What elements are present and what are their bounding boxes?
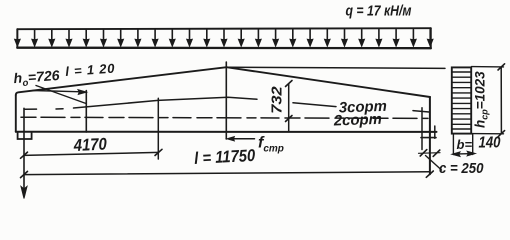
grade boundary line (right end segment) <box>413 111 429 112</box>
distributed load strip bottom line <box>17 47 431 50</box>
beam centerline (dashed) <box>21 117 428 118</box>
leader to label c=250 <box>426 156 442 171</box>
svg-text:l = 11750: l = 11750 <box>194 146 256 168</box>
section width extension left <box>452 134 454 155</box>
h0 measurement vertical line <box>85 91 87 133</box>
tick top of section height <box>498 64 505 70</box>
cross-section lamination hatching <box>453 72 471 129</box>
tick right end 4170 <box>155 149 162 155</box>
svg-text:c = 250: c = 250 <box>439 160 484 177</box>
tick left end c <box>420 150 427 156</box>
dimension line 4170 <box>24 152 159 155</box>
grade boundary line (left dashes) <box>25 108 63 111</box>
left support pad <box>18 132 32 139</box>
svg-text:2сорт: 2сорт <box>333 111 383 130</box>
tick right end of L <box>426 171 433 177</box>
svg-text:q = 17 кН/м: q = 17 кН/м <box>346 3 412 20</box>
midspan vertical line <box>225 62 227 139</box>
right support seat line <box>421 137 436 139</box>
cross-section outline <box>452 67 471 133</box>
svg-text:732: 732 <box>269 86 286 114</box>
camber arrow f_str <box>229 138 255 140</box>
dimension line L = 11750 <box>24 172 430 175</box>
tick right end c <box>433 150 440 156</box>
section bottom extension line <box>472 133 504 135</box>
section height dimension line <box>500 67 502 134</box>
tick bottom of 732 at centerline <box>286 116 293 122</box>
load arrows q <box>15 30 432 46</box>
apex-to-section projection line <box>227 67 445 68</box>
dimension line 732 (vertical) <box>288 84 290 132</box>
beam right edge extended down to L dimension line <box>429 97 431 174</box>
h0 leader (upper, arrowed) <box>33 91 82 92</box>
right support inner vertical <box>421 108 423 150</box>
distributed load strip top line <box>17 28 431 29</box>
tick bottom of section height <box>498 131 505 137</box>
distributed load strip right edge <box>430 28 432 48</box>
svg-text:140: 140 <box>479 135 501 152</box>
section width extension right <box>472 134 474 155</box>
tick at L crossing <box>21 171 28 177</box>
svg-text:b=: b= <box>457 137 473 152</box>
left support axis line with reaction arrow <box>23 108 25 190</box>
section top extension line <box>472 66 504 68</box>
tick at 4170 crossing <box>21 152 28 158</box>
beam top edge <box>16 67 430 97</box>
beam bottom edge <box>16 131 437 133</box>
svg-text:4170: 4170 <box>72 135 107 155</box>
beam left edge <box>15 95 17 132</box>
right support outer short vertical <box>434 126 436 138</box>
label h0=726 and slope 1:20 <box>13 61 116 90</box>
section width dimension line with arrows <box>453 153 474 156</box>
grade boundary line (main sloped run) <box>74 97 258 108</box>
distributed load strip left edge <box>16 29 18 48</box>
dimension line c <box>419 152 441 155</box>
tick top of 732 <box>286 81 293 87</box>
grade boundary leader to label 3 sort <box>293 103 336 107</box>
design section extension line x=4170 <box>157 98 159 159</box>
h0 leader (lower diagonal) <box>36 86 86 104</box>
